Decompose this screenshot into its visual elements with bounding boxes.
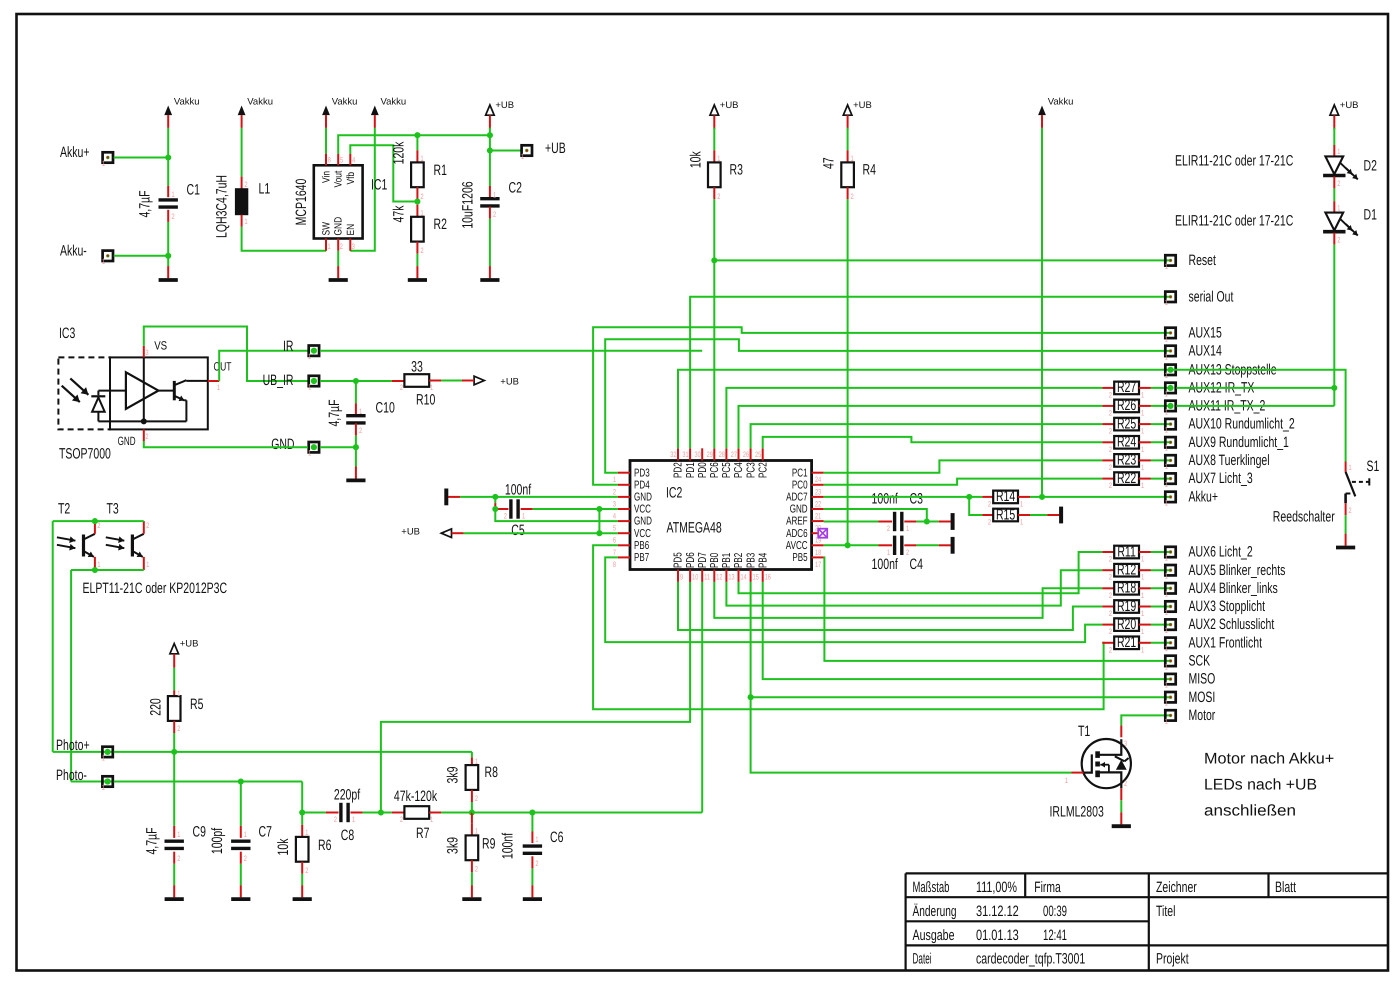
svg-text:ELIR11-21C oder 17-21C: ELIR11-21C oder 17-21C (1175, 153, 1293, 170)
svg-text:GND: GND (271, 436, 294, 453)
svg-text:11: 11 (704, 573, 710, 582)
svg-text:1: 1 (308, 382, 311, 391)
svg-text:1: 1 (1165, 262, 1168, 271)
port +UB (490, 140, 566, 161)
wire ADC7 row (824, 494, 983, 500)
wire PB3 to MOSI (748, 582, 1171, 700)
resistor R2 (391, 205, 447, 255)
svg-text:2: 2 (1109, 427, 1112, 436)
svg-text:2: 2 (1124, 779, 1127, 788)
port AUX4 (1165, 580, 1278, 599)
port IR (283, 338, 319, 361)
svg-text:2: 2 (1109, 481, 1112, 490)
svg-text:2: 2 (1109, 627, 1112, 636)
svg-text:R27: R27 (1117, 379, 1136, 396)
svg-text:AUX3 Stopplicht: AUX3 Stopplicht (1189, 598, 1266, 615)
wire GND21 row (824, 509, 927, 522)
svg-text:2: 2 (421, 192, 424, 201)
annotation motor text (1204, 751, 1334, 820)
wire +UB to VCC net (464, 532, 600, 534)
wire PB5 to SCK (824, 557, 1171, 661)
svg-text:12:41: 12:41 (1043, 927, 1067, 944)
power +UB R3 (710, 100, 739, 129)
svg-text:C10: C10 (376, 400, 395, 417)
ground right of R15 (1047, 507, 1061, 524)
wire Photo+ to R8 (471, 752, 473, 758)
svg-text:7: 7 (613, 548, 616, 557)
port AUX7 (1165, 470, 1253, 489)
svg-text:4,7µF: 4,7µF (144, 827, 161, 854)
wire VCC4 row (533, 506, 618, 512)
svg-text:Vout: Vout (333, 171, 345, 188)
svg-text:1: 1 (217, 383, 220, 392)
svg-text:2: 2 (988, 500, 991, 509)
svg-text:27: 27 (731, 450, 737, 459)
svg-text:Reset: Reset (1189, 252, 1217, 269)
svg-text:4: 4 (352, 156, 356, 165)
wire T2T3 emitters (71, 567, 144, 573)
svg-text:111,00%: 111,00% (976, 879, 1017, 896)
svg-text:14: 14 (741, 573, 748, 582)
svg-text:1: 1 (493, 191, 496, 200)
svg-text:R14: R14 (996, 488, 1015, 505)
label ELIR D1 (1175, 212, 1293, 229)
wire Vakku-C1 (165, 128, 171, 186)
ground under R2 (408, 266, 427, 280)
svg-text:1: 1 (245, 217, 248, 226)
wire C1 to gnd (165, 222, 171, 266)
port MOSI (1165, 689, 1216, 708)
svg-text:T3: T3 (107, 501, 119, 518)
svg-text:R8: R8 (485, 764, 498, 781)
svg-text:12: 12 (716, 573, 722, 582)
svg-text:1: 1 (1165, 662, 1168, 671)
port AUX1 (1165, 634, 1263, 653)
svg-text:D1: D1 (1364, 207, 1377, 224)
wire PD1 to serialOut (690, 297, 1170, 449)
svg-text:Projekt: Projekt (1156, 950, 1189, 967)
resistor R21 (1102, 634, 1170, 654)
resistor R27 (1102, 379, 1170, 399)
wire Photo- to R6 node (299, 782, 305, 825)
svg-text:10k: 10k (688, 151, 705, 168)
svg-text:1: 1 (475, 757, 478, 766)
svg-text:120k: 120k (391, 141, 408, 164)
svg-text:C8: C8 (341, 827, 354, 844)
wire R15 branch (969, 497, 982, 515)
svg-text:+UB: +UB (180, 638, 199, 649)
svg-text:AUX8 Tuerklingel: AUX8 Tuerklingel (1189, 452, 1270, 469)
svg-text:1: 1 (1141, 408, 1144, 417)
resistor R8 (445, 757, 498, 803)
svg-text:ELPT11-21C oder KP2012P3C: ELPT11-21C oder KP2012P3C (83, 580, 228, 597)
svg-text:1: 1 (717, 154, 720, 163)
ground under C1 (159, 266, 178, 280)
svg-text:GND: GND (333, 216, 345, 235)
svg-text:8: 8 (328, 156, 331, 165)
transistor T3 (106, 501, 150, 571)
wire PD5 to AUX3 (678, 582, 1102, 630)
svg-text:2: 2 (988, 518, 991, 527)
svg-text:1: 1 (97, 560, 100, 569)
svg-text:R20: R20 (1117, 616, 1136, 633)
port serial Out (1165, 288, 1234, 307)
svg-text:AUX9 Rundumlicht_1: AUX9 Rundumlicht_1 (1189, 434, 1289, 451)
svg-text:3: 3 (1124, 739, 1127, 748)
wire collectors to Photo+ (52, 521, 54, 752)
svg-text:18: 18 (815, 548, 821, 557)
svg-text:+UB: +UB (853, 100, 872, 111)
svg-text:IR: IR (283, 338, 294, 355)
svg-text:2: 2 (245, 180, 248, 189)
svg-text:1: 1 (177, 830, 180, 839)
ground under R6 (293, 885, 312, 899)
port AUX9 (1165, 434, 1289, 453)
wire OUT to IR port (219, 351, 308, 381)
port AUX8 (1165, 452, 1270, 471)
wire +UB to R5 (173, 668, 175, 691)
resistor R20 (1102, 616, 1170, 636)
svg-text:3: 3 (352, 242, 355, 251)
wire +UB vertical (487, 128, 493, 186)
port Akku- (60, 242, 113, 266)
svg-text:01.01.13: 01.01.13 (976, 927, 1019, 944)
svg-text:Zeichner: Zeichner (1156, 879, 1197, 896)
ic IC2 ATMEGA48 box (630, 461, 812, 570)
svg-text:9: 9 (680, 573, 683, 582)
svg-text:23: 23 (815, 487, 821, 496)
wire Vfb net (350, 145, 417, 201)
svg-text:AUX6 Licht_2: AUX6 Licht_2 (1189, 544, 1253, 561)
wire R6 gnd (301, 862, 303, 886)
wire PD2 to AUX13 (678, 370, 1171, 449)
svg-text:AUX5 Blinker_rechts: AUX5 Blinker_rechts (1189, 562, 1286, 579)
svg-text:L1: L1 (259, 181, 271, 198)
svg-text:PC0: PC0 (792, 479, 808, 491)
svg-text:ADC6: ADC6 (786, 528, 808, 540)
svg-text:1: 1 (421, 154, 424, 163)
svg-text:GND: GND (790, 504, 808, 516)
svg-text:2: 2 (334, 815, 337, 824)
svg-text:1: 1 (1165, 444, 1168, 453)
port Photo- (56, 767, 114, 792)
svg-text:32: 32 (670, 450, 676, 459)
svg-text:C7: C7 (259, 824, 272, 841)
svg-text:PB4: PB4 (757, 552, 769, 568)
svg-text:T2: T2 (58, 501, 70, 518)
svg-text:10uF1206: 10uF1206 (460, 181, 477, 228)
svg-text:2: 2 (400, 815, 403, 824)
wire +UB to D2 (1333, 128, 1335, 145)
svg-text:1: 1 (1337, 203, 1340, 212)
svg-text:1: 1 (1165, 389, 1168, 398)
svg-text:Reedschalter: Reedschalter (1273, 508, 1335, 525)
svg-text:1: 1 (535, 835, 538, 844)
svg-text:3k9: 3k9 (445, 767, 462, 784)
port GND (271, 436, 319, 458)
svg-text:1: 1 (1141, 609, 1144, 618)
IC3 transistor (158, 380, 186, 421)
wire S1 to gnd (1345, 503, 1347, 533)
svg-text:10: 10 (692, 573, 699, 582)
wire VCC6 row (599, 532, 618, 534)
svg-text:PD1: PD1 (685, 462, 697, 478)
power +UB R5 (170, 638, 199, 667)
svg-text:2: 2 (1109, 390, 1112, 399)
svg-text:C2: C2 (509, 179, 522, 196)
svg-text:C4: C4 (910, 556, 923, 573)
wire node to C6 (472, 809, 536, 815)
svg-text:2: 2 (851, 192, 854, 201)
wire Vakku-Vin (325, 128, 327, 154)
svg-text:1: 1 (1165, 699, 1168, 708)
svg-text:1: 1 (1165, 608, 1168, 617)
ground under C10 (346, 467, 365, 481)
svg-text:1: 1 (1337, 147, 1340, 156)
IC1 pin Vin (321, 154, 333, 183)
svg-text:anschließen: anschließen (1204, 802, 1296, 819)
svg-text:MOSI: MOSI (1189, 689, 1216, 706)
svg-text:IC2: IC2 (666, 485, 682, 502)
svg-text:2: 2 (1349, 506, 1352, 515)
svg-text:PD6: PD6 (685, 552, 697, 568)
ground under T1 (1112, 812, 1131, 826)
wire C4 gnd (916, 544, 938, 546)
svg-text:3: 3 (613, 499, 616, 508)
node C8-R7 (378, 809, 384, 815)
svg-text:5: 5 (613, 524, 617, 533)
svg-text:AUX15: AUX15 (1189, 325, 1222, 342)
resistor R11 (1102, 543, 1170, 563)
IC1 pin SW (321, 222, 333, 251)
port AUX6 (1165, 544, 1253, 563)
svg-text:VCC: VCC (634, 528, 651, 540)
svg-text:2: 2 (97, 521, 100, 530)
svg-text:AUX2 Schlusslicht: AUX2 Schlusslicht (1189, 616, 1275, 633)
wire Vout net (338, 132, 490, 154)
wire EN net (350, 128, 375, 251)
capacitor C10 (326, 381, 395, 447)
IC3 pin VS (144, 338, 167, 357)
svg-text:C9: C9 (193, 824, 206, 841)
svg-text:1: 1 (1165, 681, 1168, 690)
ground under R9 (462, 885, 481, 899)
no-connect ADC6 (818, 529, 827, 538)
wire Akku- to C1 (114, 255, 169, 257)
node R1-R2 (414, 187, 420, 205)
svg-text:2: 2 (305, 866, 308, 875)
svg-text:cardecoder_tqfp.T3001: cardecoder_tqfp.T3001 (976, 950, 1085, 967)
svg-text:Titel: Titel (1156, 903, 1175, 920)
port AUX14 (1165, 343, 1222, 362)
svg-text:2: 2 (146, 432, 149, 441)
svg-text:2: 2 (340, 242, 343, 251)
port AUX15 (1165, 325, 1222, 344)
svg-text:2: 2 (1109, 645, 1112, 654)
port Photo+ (53, 737, 114, 763)
IC1 pin EN (345, 224, 357, 251)
wire PC5 to R27 (726, 388, 1102, 448)
resistor R22 (1102, 470, 1170, 490)
svg-text:Motor: Motor (1189, 707, 1216, 724)
wire PC1 to R23 (824, 460, 1103, 472)
wire PB6 to AUX1 (593, 545, 1104, 709)
svg-text:Akku-: Akku- (60, 242, 87, 259)
port AUX10 (1165, 416, 1295, 435)
svg-text:22: 22 (815, 499, 821, 508)
wire GND5 row (495, 509, 618, 521)
port Akku+ right (1165, 489, 1218, 508)
wire D1 down (1333, 233, 1335, 388)
svg-text:IC1: IC1 (371, 177, 387, 194)
wire PB7 to AUX2 (605, 557, 1102, 642)
svg-text:Vakku: Vakku (1048, 97, 1074, 108)
port Reset (1165, 252, 1217, 271)
wire PC2 to R24 (763, 437, 1103, 448)
svg-text:2: 2 (475, 865, 478, 874)
svg-text:100nf: 100nf (505, 482, 532, 499)
IC1 pin Vout (333, 154, 345, 188)
svg-text:R24: R24 (1117, 434, 1136, 451)
IC3 pin OUT (208, 360, 232, 392)
wire R7 to R8 node (441, 809, 475, 815)
svg-text:25: 25 (755, 450, 762, 459)
port Motor (1165, 707, 1216, 726)
svg-text:8: 8 (613, 560, 616, 569)
svg-text:2: 2 (1109, 591, 1112, 600)
svg-text:PD2: PD2 (673, 462, 685, 478)
wire VCC net down (596, 509, 602, 536)
power +UB left arrow (401, 527, 463, 538)
wire PC3 to R25 (751, 424, 1103, 448)
IC1 pin GND (333, 216, 345, 251)
svg-text:PB6: PB6 (634, 540, 649, 552)
svg-text:2: 2 (400, 383, 403, 392)
resistor R23 (1102, 452, 1170, 472)
svg-text:PC2: PC2 (757, 462, 769, 478)
svg-text:IRLML2803: IRLML2803 (1050, 804, 1104, 821)
svg-text:R25: R25 (1117, 415, 1136, 432)
wire D2 to D1 (1333, 177, 1335, 202)
IC3 amp triangle (98, 372, 158, 409)
port UB_IR (263, 372, 320, 391)
svg-text:47k-120k: 47k-120k (394, 788, 438, 805)
port AUX12 (1165, 380, 1255, 399)
svg-text:VCC: VCC (634, 504, 651, 516)
svg-text:1: 1 (244, 830, 247, 839)
resistor R5 (148, 689, 204, 733)
IC1 pin Vfb (345, 154, 357, 185)
wire IC1 GND down (337, 251, 339, 266)
svg-text:31.12.12: 31.12.12 (976, 903, 1019, 920)
svg-text:Vakku: Vakku (174, 97, 200, 108)
IC3 light arrows (62, 378, 89, 402)
svg-text:1: 1 (1141, 463, 1144, 472)
svg-text:31: 31 (682, 450, 688, 459)
svg-text:ATMEGA48: ATMEGA48 (667, 519, 722, 536)
svg-text:PD5: PD5 (673, 552, 685, 568)
IC2 pins (613, 448, 824, 582)
resistor R19 (1102, 598, 1170, 618)
svg-text:GND: GND (634, 492, 652, 504)
resistor R24 (1102, 434, 1170, 454)
svg-text:MISO: MISO (1189, 671, 1216, 688)
svg-text:T1: T1 (1078, 723, 1090, 740)
resistor R6 (275, 825, 331, 875)
title block (906, 873, 1388, 970)
wire R9 gnd (471, 860, 473, 885)
svg-text:1: 1 (1141, 390, 1144, 399)
svg-text:2: 2 (1109, 463, 1112, 472)
svg-text:1: 1 (102, 159, 105, 168)
svg-text:PD4: PD4 (634, 479, 650, 491)
svg-text:R21: R21 (1117, 634, 1136, 651)
power +UB R4 (843, 100, 872, 129)
svg-text:2: 2 (887, 524, 890, 533)
svg-text:2: 2 (177, 854, 180, 863)
svg-text:C3: C3 (910, 490, 923, 507)
IC3 photodiode (91, 391, 105, 422)
svg-text:PB2: PB2 (733, 553, 745, 568)
ground under C2 (480, 266, 499, 280)
svg-text:4,7µF: 4,7µF (137, 190, 154, 217)
svg-text:00:39: 00:39 (1043, 903, 1067, 920)
svg-text:1: 1 (521, 152, 524, 161)
svg-text:15: 15 (753, 573, 760, 582)
power Vakku EN (371, 97, 406, 128)
svg-text:30: 30 (695, 450, 702, 459)
svg-text:1: 1 (172, 190, 175, 199)
resistor R25 (1102, 415, 1170, 435)
wire C6 gnd (531, 868, 533, 885)
svg-text:2: 2 (1109, 573, 1112, 582)
svg-text:R2: R2 (434, 216, 447, 233)
svg-text:AUX1 Frontlicht: AUX1 Frontlicht (1189, 634, 1263, 651)
ground right of C3 (939, 513, 953, 530)
svg-text:PD3: PD3 (634, 467, 650, 479)
wire GND3 row (460, 494, 618, 500)
svg-text:1: 1 (1020, 500, 1023, 509)
svg-text:+UB: +UB (720, 100, 739, 111)
wire PD6 net down (381, 582, 690, 813)
svg-text:2: 2 (177, 724, 180, 733)
svg-text:1: 1 (1165, 572, 1168, 581)
svg-text:1: 1 (906, 524, 909, 533)
svg-text:AREF: AREF (786, 516, 808, 528)
svg-text:2: 2 (504, 512, 507, 521)
resistor R9 (445, 813, 496, 874)
svg-text:AUX4 Blinker_links: AUX4 Blinker_links (1189, 580, 1278, 597)
svg-text:TSOP7000: TSOP7000 (59, 446, 111, 463)
wire R5 to Photo+ (173, 721, 175, 752)
svg-text:33: 33 (411, 359, 423, 376)
svg-text:24: 24 (815, 475, 822, 484)
IC3 bottom rail (98, 418, 186, 424)
svg-text:AUX10 Rundumlicht_2: AUX10 Rundumlicht_2 (1189, 416, 1295, 433)
svg-text:Änderung: Änderung (913, 903, 957, 920)
capacitor C9 (144, 752, 206, 864)
ground under C7 (231, 885, 250, 899)
svg-text:LEDs nach +UB: LEDs nach +UB (1204, 777, 1317, 794)
svg-text:R9: R9 (482, 836, 495, 853)
svg-text:1: 1 (1165, 498, 1168, 507)
wire R15 to gnd (1030, 514, 1047, 516)
svg-text:Maßstab: Maßstab (913, 879, 950, 896)
svg-text:SCK: SCK (1189, 653, 1211, 670)
svg-text:Vakku: Vakku (381, 97, 407, 108)
svg-text:PB0: PB0 (709, 553, 721, 568)
resistor R1 (391, 135, 447, 201)
